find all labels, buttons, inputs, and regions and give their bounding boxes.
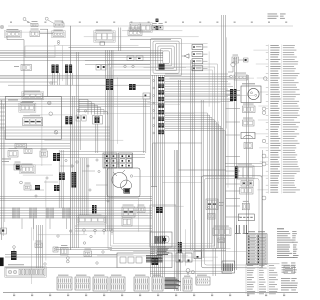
- connector dark pair b: [156, 26, 159, 30]
- wire y85: [8, 84, 150, 86]
- switch S9: [185, 253, 192, 262]
- terminal strip: [238, 214, 254, 221]
- notes text block: [277, 231, 298, 243]
- sensor B1: [8, 148, 18, 157]
- junction circle B: [45, 17, 53, 23]
- switch S3: [128, 28, 142, 36]
- bottom connector row: [57, 275, 210, 291]
- relay K3: [52, 30, 65, 38]
- top ruler tick labels: [10, 22, 287, 23]
- section boundary wires x76: [77, 52, 79, 248]
- module M10: [235, 164, 254, 179]
- terminal circles bottom-left: [44, 235, 104, 265]
- wire bus y57-61: [0, 58, 163, 61]
- connector dark h: [178, 242, 182, 253]
- relay K6: [139, 23, 152, 33]
- wire stubs right components: [226, 91, 240, 218]
- connector ladder: [192, 45, 208, 71]
- wire bundle bottom-left riser: [37, 225, 43, 268]
- wire gauge table: [246, 264, 280, 294]
- heater control box: [117, 253, 172, 268]
- wire bus y248-251: [110, 248, 226, 250]
- wire bus y51-55: [0, 51, 163, 56]
- terminal circle y83: [50, 82, 52, 84]
- wire size note text: [277, 245, 299, 259]
- terminal circles row: [83, 229, 114, 235]
- wire fan right corners: [165, 74, 233, 249]
- indicator circles lower: [262, 154, 266, 200]
- wire bus y196-201: [0, 197, 152, 201]
- fuse F2: [158, 23, 163, 29]
- switch S1: [31, 21, 38, 26]
- relay sockets: [103, 153, 133, 168]
- wire drops from bus: [22, 219, 67, 230]
- terminal circle: [228, 62, 235, 72]
- legs component b: [243, 225, 248, 233]
- wire bus y163-167 right: [225, 164, 262, 167]
- switch detail marks: [113, 170, 133, 177]
- wire bus y271-274: [150, 271, 232, 273]
- connector dark d: [35, 185, 40, 190]
- wire riser x47: [47, 29, 49, 97]
- wire bundle x178: [179, 80, 181, 291]
- switch S4: [40, 149, 48, 157]
- wire pair x118: [119, 28, 121, 52]
- wire y60-65: [85, 60, 150, 64]
- terminal circles x125: [124, 65, 134, 67]
- terminal circle d: [230, 75, 233, 78]
- wiper motor M4: [122, 205, 135, 217]
- diode module b: [244, 58, 249, 62]
- wire bundle x80-88: [80, 158, 88, 215]
- relay K1: [5, 29, 21, 38]
- ground G2: [186, 269, 194, 276]
- module M7: [53, 247, 58, 252]
- panel section box 1: [108, 64, 217, 248]
- wire bundle x59-64: [59, 150, 63, 208]
- module M1: [19, 102, 36, 112]
- sheet title text: [268, 14, 286, 19]
- resistor comb: [222, 261, 235, 273]
- switch S7: [84, 249, 92, 257]
- switch S5: [24, 183, 31, 190]
- module M2: [23, 115, 43, 125]
- lamp pair: [66, 257, 69, 263]
- wire bus y254-257: [5, 255, 117, 258]
- connector stack x106: [106, 79, 113, 90]
- connector dark pair c: [53, 153, 60, 161]
- ignition switch housing: [107, 168, 140, 197]
- connector stack e: [59, 173, 65, 181]
- relay K2: [30, 29, 40, 37]
- faint wire texture: [2, 31, 254, 284]
- ECU wire stubs: [0, 100, 5, 128]
- connector stack right of ECU: [65, 116, 72, 124]
- wire pair x234: [235, 57, 237, 270]
- wire bus y226-231: [75, 226, 152, 231]
- indicator circle b: [262, 139, 266, 143]
- connector stack x151 low: [152, 258, 159, 265]
- left edge module: [1, 228, 7, 234]
- ignition contact block: [124, 188, 131, 194]
- notes heading: [277, 228, 284, 229]
- switch S10: [194, 251, 202, 259]
- diode module: [232, 55, 247, 63]
- ignition switch rotor: [112, 173, 132, 192]
- indicator lamps: [58, 40, 60, 44]
- connector drops b: [66, 73, 72, 85]
- wire staircase fan-out: [79, 100, 107, 115]
- wire bus y127-139: [0, 127, 110, 139]
- footer text right: [281, 278, 298, 290]
- relay K7: [20, 164, 35, 174]
- flasher unit: [77, 215, 106, 225]
- floor harness box: [151, 143, 202, 291]
- top-left margin connector: [1, 26, 3, 28]
- wire bundle x105-113: [106, 50, 113, 231]
- arrow junction: [182, 54, 189, 58]
- in-box module cluster: [206, 199, 224, 219]
- module M5: [137, 205, 145, 213]
- connector column pair a: [52, 65, 59, 74]
- fuse F3: [242, 201, 249, 210]
- terminal circles scatter mid-left: [35, 159, 119, 202]
- fuse F1: [152, 23, 157, 29]
- fuse box F4: [14, 65, 32, 71]
- left margin wires: [2, 100, 5, 240]
- wire top-left link: [40, 29, 53, 34]
- connector dark pair i: [92, 205, 97, 214]
- relay K5: [129, 23, 140, 32]
- module M6: [122, 218, 132, 226]
- bottom ruler tick labels: [13, 293, 285, 297]
- wire y39: [130, 38, 171, 40]
- wire stubs scatter: [30, 166, 108, 190]
- top border line: [8, 25, 293, 27]
- wire top-left drop: [7, 37, 24, 97]
- switch S12: [243, 118, 255, 126]
- mini module x76: [76, 115, 86, 121]
- bottom border line: [3, 292, 298, 294]
- connector chain center bus: [158, 77, 164, 134]
- connector column pair b: [65, 65, 72, 74]
- wire y267: [5, 267, 117, 269]
- heater resistor block: [146, 255, 163, 262]
- connector column tall: [72, 172, 77, 188]
- module M12: [24, 149, 32, 154]
- wire y47.7: [69, 47, 151, 49]
- terminal circles bus: [153, 80, 155, 134]
- junction box outline: [25, 46, 55, 57]
- ground G1: [13, 246, 16, 251]
- legs component a: [235, 225, 241, 233]
- module M3: [14, 162, 21, 170]
- wire bus y151-157: [60, 152, 145, 158]
- wire pair x143 down: [144, 99, 146, 153]
- indicator circles a: [262, 107, 266, 114]
- indicator circle c: [264, 77, 268, 81]
- connector dark fan: [230, 89, 236, 101]
- switch S8: [176, 253, 183, 262]
- module M9: [244, 143, 253, 149]
- sender unit top: [234, 73, 248, 80]
- wire bundle x210-217: [213, 248, 215, 276]
- wire bus y96-107: [0, 97, 150, 107]
- control unit box: [5, 97, 61, 140]
- wire bus y247 left: [55, 248, 112, 250]
- harness loop group: [151, 39, 182, 76]
- terminal circle e: [70, 161, 79, 232]
- label text M1: [8, 100, 34, 102]
- fuse cluster x127: [127, 56, 143, 61]
- wire x80 down: [79, 121, 81, 150]
- connector C901 pin grid: [247, 231, 268, 264]
- wire code legend table: [253, 45, 300, 194]
- mini module x96: [96, 65, 106, 71]
- relay K4: [94, 30, 115, 46]
- sensor B2: [15, 144, 27, 149]
- connector drops a: [53, 73, 60, 85]
- relay K8: [61, 245, 69, 255]
- connector dark pair a: [156, 19, 159, 22]
- module M13: [93, 116, 103, 125]
- fuse chart text: [282, 263, 297, 273]
- relay K9: [213, 226, 231, 236]
- wire pair x96 down: [96, 124, 98, 153]
- junction box right: [143, 93, 150, 99]
- panel section box 2: [111, 67, 215, 246]
- instrument cluster strip: [5, 264, 46, 277]
- heater fan motor: [241, 83, 261, 102]
- wire bend y170: [178, 169, 226, 171]
- gauge unit: [241, 133, 255, 139]
- wire pair x246: [247, 75, 249, 234]
- wire bundle x190-204: [191, 60, 204, 258]
- mid-left label: [2, 159, 11, 162]
- dash harness box: [202, 176, 263, 268]
- connector dark pair mid: [129, 84, 136, 90]
- relay K10: [22, 91, 44, 100]
- switch S2: [54, 21, 64, 27]
- panel section box 3: [113, 70, 212, 244]
- wire bus y75-79: [0, 76, 150, 79]
- switch S13: [241, 181, 254, 186]
- connector stack bus f: [156, 207, 163, 213]
- wire bus y208-218 with inline connectors: [0, 208, 152, 219]
- vehicle sketch: [158, 236, 169, 243]
- wire bundle left riser: [71, 26, 75, 250]
- module M8: [218, 238, 225, 243]
- blower resistor pack: [150, 232, 172, 247]
- fuse chart box: [284, 266, 295, 274]
- dark text block: [157, 247, 169, 255]
- wire bus y143-148: [0, 144, 70, 149]
- wire y82: [0, 81, 57, 83]
- wire bundle main center bus: [151, 75, 165, 277]
- connector stack f: [54, 185, 60, 191]
- mini table: [150, 247, 156, 255]
- wire x262: [261, 150, 263, 268]
- switch S11: [243, 104, 256, 113]
- wire bundle x221-226: [222, 15, 226, 270]
- connector text block: [165, 278, 181, 289]
- page number tab: [0, 258, 4, 267]
- terminal circle c: [20, 181, 23, 184]
- module M11: [240, 187, 253, 194]
- junction circle A: [23, 18, 31, 24]
- screw terminals: [48, 101, 58, 134]
- terminal circles mid: [77, 109, 87, 112]
- connector dark g: [11, 251, 17, 260]
- switch S6: [35, 241, 42, 248]
- console box: [150, 205, 176, 247]
